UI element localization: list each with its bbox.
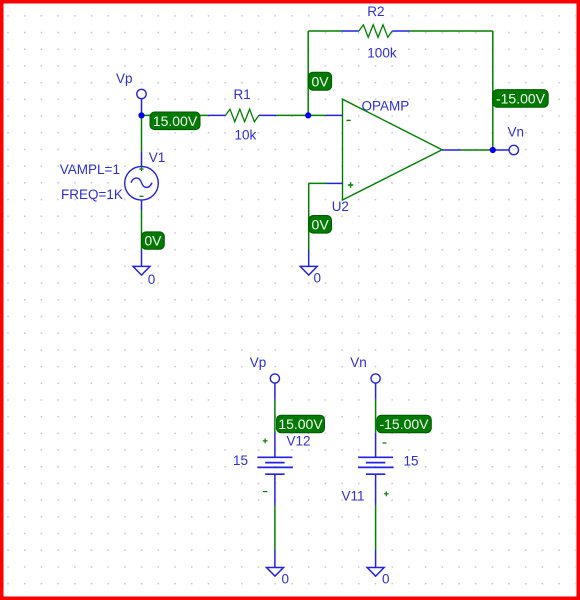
junction node minus input (305, 112, 311, 118)
wire V12 top blue (274, 383, 276, 400)
bias label 0V plus input (309, 216, 332, 234)
pin V11 top (375, 433, 377, 457)
V1 minus mark (140, 195, 144, 197)
wire main input horizontal (142, 114, 209, 116)
wire plus horizontal (309, 182, 327, 184)
wire V11 top green (375, 400, 377, 433)
wire Vp port stub (141, 99, 143, 116)
pin V12 bottom (274, 474, 276, 505)
svg-text:0: 0 (382, 572, 390, 587)
svg-text:R2: R2 (367, 4, 384, 19)
ground stub opamp (308, 250, 310, 266)
svg-text:V12: V12 (287, 433, 311, 448)
opamp plus sign (348, 182, 353, 187)
junction node output (490, 147, 496, 153)
svg-text:0V: 0V (312, 216, 330, 232)
bias label -15.00V V11 (377, 415, 432, 433)
wire V12 top green (274, 400, 276, 433)
svg-text:R1: R1 (234, 87, 251, 102)
junction node Vp (138, 112, 144, 118)
bias label 0V V1 (142, 232, 165, 249)
ground symbol V12 (267, 568, 284, 577)
resistor R1 zigzag (226, 109, 259, 122)
bias label 0V feedback (309, 72, 332, 90)
svg-text:15.00V: 15.00V (278, 416, 323, 432)
svg-text:0: 0 (148, 272, 156, 287)
svg-text:Vp: Vp (116, 71, 133, 86)
pin opamp plus (327, 182, 343, 184)
wire feedback left vertical (307, 31, 309, 115)
wire output to port (493, 149, 509, 151)
resistor R2 pins (342, 30, 359, 32)
V12 minus mark (263, 491, 267, 493)
battery V12 plates (257, 456, 292, 458)
svg-text:V1: V1 (149, 150, 166, 165)
svg-text:0: 0 (314, 271, 322, 286)
V11 minus mark (383, 442, 387, 444)
resistor R2 zigzag (359, 25, 392, 38)
wire V11 to ground (375, 505, 377, 551)
wire node to opamp minus (308, 114, 326, 116)
wire V1 top vertical (141, 115, 143, 151)
wire feedback top left (308, 30, 341, 32)
svg-text:Vn: Vn (508, 125, 525, 140)
svg-text:15.00V: 15.00V (153, 113, 198, 129)
svg-text:-15.00V: -15.00V (496, 91, 546, 107)
wire R1 to node (276, 114, 308, 116)
op-amp U2 triangle (343, 99, 443, 200)
svg-text:0V: 0V (311, 74, 329, 90)
V12 plus mark (263, 439, 268, 444)
pin V1 top (141, 151, 143, 167)
ground stub V1 (141, 250, 143, 266)
wire V12 to ground (274, 505, 276, 551)
svg-text:0: 0 (282, 572, 290, 587)
svg-text:0V: 0V (144, 233, 162, 249)
bias label 15.00V input (150, 112, 200, 130)
svg-text:15: 15 (233, 453, 248, 468)
wire plus vertical to ground (308, 183, 310, 250)
source V1 circle (125, 167, 159, 201)
wire feedback top right (410, 30, 493, 32)
wire output (461, 149, 493, 151)
svg-text:-15.00V: -15.00V (379, 416, 429, 432)
wire V11 top blue (375, 383, 377, 400)
ground symbol V1 (133, 266, 150, 275)
port Vn bottom (371, 374, 380, 383)
pin V12 top (274, 433, 276, 457)
port Vn (509, 145, 518, 154)
svg-text:U2: U2 (332, 199, 349, 214)
svg-text:Vn: Vn (350, 355, 367, 370)
ground symbol V11 (367, 568, 384, 577)
battery V11 plates (358, 456, 393, 458)
svg-text:100k: 100k (367, 46, 397, 61)
pin V11 bottom (375, 474, 377, 505)
svg-text:15: 15 (404, 454, 419, 469)
ground symbol opamp (300, 266, 317, 275)
port Vp (137, 89, 146, 98)
opamp minus sign (347, 119, 351, 121)
pin opamp minus (326, 114, 343, 116)
V1 plus mark (139, 167, 143, 171)
V11 plus mark (384, 491, 389, 496)
port Vp bottom (270, 374, 279, 383)
ground stub V11 (375, 551, 377, 568)
pin V1 bottom (141, 200, 143, 211)
svg-text:Vp: Vp (250, 355, 267, 370)
wire V1 to ground (141, 211, 143, 251)
wire feedback right vertical (492, 31, 494, 150)
bias label 15.00V V12 (277, 415, 325, 433)
svg-text:VAMPL=1: VAMPL=1 (60, 162, 120, 177)
resistor R1 pins (208, 114, 226, 116)
ground stub V12 (274, 551, 276, 568)
svg-text:V11: V11 (342, 489, 365, 504)
svg-text:10k: 10k (235, 128, 257, 143)
svg-text:OPAMP: OPAMP (362, 99, 410, 114)
bias label -15.00V top (493, 90, 548, 108)
pin opamp output (442, 149, 461, 151)
svg-text:FREQ=1K: FREQ=1K (61, 187, 123, 202)
source V1 sine (131, 178, 152, 187)
